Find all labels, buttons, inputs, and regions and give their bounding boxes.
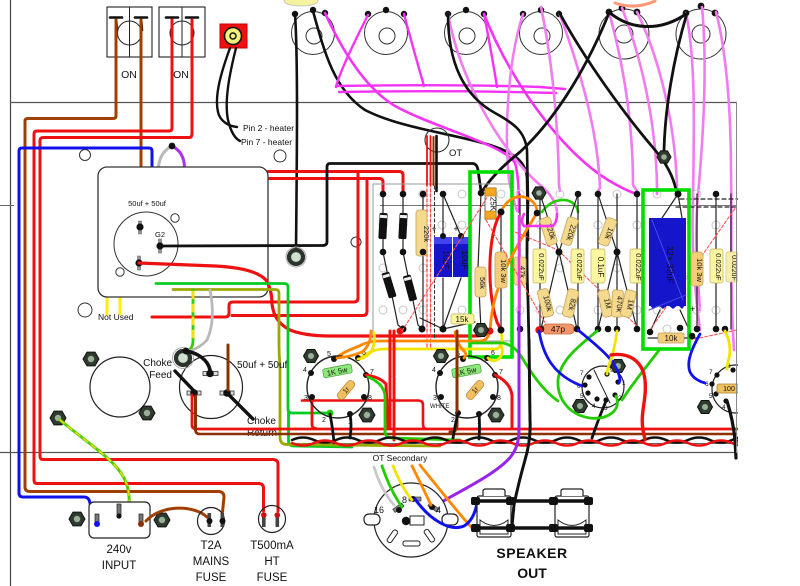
resistor 1K 5w (V7) xyxy=(322,364,352,379)
wire: magenta heater bus lower xyxy=(339,91,556,93)
wire: olive run from panel xyxy=(173,290,440,447)
wire: red dashed diagonal F xyxy=(690,330,737,340)
svg-text:FUSE: FUSE xyxy=(196,572,227,584)
svg-text:4: 4 xyxy=(722,404,726,411)
hole top left xyxy=(80,150,91,161)
wire: black grommet to C2 top pin xyxy=(186,351,210,370)
svg-text:Not Used: Not Used xyxy=(98,312,134,322)
wire: grey cap lead to panel xyxy=(159,146,173,167)
wire: green arc over board top xyxy=(542,200,578,212)
bolt hex nut V9 bottom xyxy=(573,400,588,413)
svg-text:WHITE: WHITE xyxy=(430,404,449,410)
node: red terminal 47p left xyxy=(535,326,542,333)
socket V9 pin numbers xyxy=(577,367,626,412)
bolt hex nut V7 bottom xyxy=(359,408,375,422)
capacitor 0.1uF xyxy=(591,249,605,283)
grommet right of panel xyxy=(286,247,306,267)
svg-text:5: 5 xyxy=(580,393,584,400)
connector pin live right xyxy=(138,514,144,527)
node: red terminal in green rect xyxy=(487,328,494,335)
wire: brown link input to mains fuse xyxy=(146,508,207,521)
wire: heater twisted pair from pilot lamp to Pin2 label xyxy=(217,48,237,127)
wire: magenta heater V6 strand c xyxy=(696,7,704,310)
wire: red horizontal mid route xyxy=(302,401,427,430)
wire: black V6 left pin to chassis lug xyxy=(664,13,687,150)
capacitor 0.022uF (5) edge xyxy=(726,252,738,282)
wire: OT primary red lead pair xyxy=(427,136,431,185)
tube socket V4 top xyxy=(520,12,563,55)
wire: magenta purple stub top xyxy=(518,216,521,310)
svg-text:ON: ON xyxy=(121,69,137,81)
wire: magenta heater from V1 sweep to board xyxy=(325,13,519,212)
wire: blue loop to V9 pin6 xyxy=(539,331,582,386)
svg-text:0.022uF: 0.022uF xyxy=(730,255,737,281)
wire: magenta heater V6 strand d xyxy=(716,12,734,350)
capacitor C2 pin left xyxy=(187,389,201,397)
bolt hex nut V8 bottom xyxy=(488,408,504,422)
wire: magenta heater V6 left xyxy=(622,8,657,194)
svg-text:6: 6 xyxy=(491,350,495,357)
resistor 15k xyxy=(451,314,474,324)
connector: 240v input socket body xyxy=(89,502,150,538)
wire: magenta heater V6 strand a xyxy=(637,12,678,192)
wire: black dashed vertical on rectifier board xyxy=(434,186,436,340)
hole mid left xyxy=(78,303,92,317)
wire: OT primary black lead xyxy=(435,136,438,191)
board: preamp PSU mounting panel xyxy=(98,167,268,297)
svg-text:0.022uF: 0.022uF xyxy=(575,253,584,281)
wire: purple cap lead to panel xyxy=(172,146,185,167)
OT plug pin 16 xyxy=(393,503,404,513)
bolt hex nut input right xyxy=(154,513,170,527)
capacitor 10uF A xyxy=(434,237,452,277)
wire: brown mains from SW1 right lever down into panel xyxy=(140,20,143,167)
wire: red twisted pair run xyxy=(292,441,740,446)
switch SW2 toggle levers xyxy=(166,18,198,31)
terminals rectifier board top xyxy=(380,190,505,216)
wire: orange drop to V7 pin5 xyxy=(337,331,371,358)
wire: red drop from C2 left pin xyxy=(192,395,737,429)
tube socket V9 noval base xyxy=(582,366,624,408)
resistor 220k diag left xyxy=(539,216,559,246)
svg-text:INPUT: INPUT xyxy=(102,560,137,572)
tube socket V7 octal base xyxy=(307,356,369,418)
switch SW1 toggle levers xyxy=(110,18,147,31)
svg-text:56k: 56k xyxy=(478,277,487,289)
svg-text:25K: 25K xyxy=(489,197,498,212)
hole: mains transformer opening xyxy=(90,357,150,417)
wire: yellow drop to V10 pin8 xyxy=(725,331,730,369)
wire: black choke return lead xyxy=(227,393,253,419)
svg-text:HT: HT xyxy=(264,556,279,568)
svg-text:MAINS: MAINS xyxy=(193,556,230,568)
wire: chassis right board edge xyxy=(736,102,738,453)
connector: OT secondary plug body xyxy=(374,483,448,557)
hole near board left xyxy=(351,237,361,247)
resistor 1M diag left xyxy=(597,289,614,318)
capacitor 0.022uF (3) xyxy=(630,249,643,283)
svg-text:1: 1 xyxy=(622,380,626,387)
wire: green B+ run from panel to lower area xyxy=(156,284,329,414)
tube socket V8 octal base xyxy=(436,356,498,418)
wire: black dashed jumpers top right xyxy=(676,199,745,207)
wire: blue mains neutral xyxy=(19,148,152,516)
capacitor 10uF B xyxy=(453,237,471,277)
bolt hex nut earth xyxy=(50,411,66,425)
wire: orange run down through board xyxy=(336,213,537,358)
socket V8 pins xyxy=(437,355,498,417)
wire: red dashed diagonal E xyxy=(650,207,736,330)
svg-text:ON: ON xyxy=(173,69,189,81)
capacitor C2 pin right xyxy=(220,389,234,397)
wire: brown mains from SW1 left lever xyxy=(25,20,224,512)
svg-text:5: 5 xyxy=(709,393,713,400)
resistor 220k diag right xyxy=(560,216,580,246)
svg-text:10k 3w: 10k 3w xyxy=(695,258,704,282)
wire: black V5 sweep down-left to 25K xyxy=(483,13,609,190)
wire: salmon stub top right xyxy=(615,1,655,6)
wire: orange OT secondary lead xyxy=(412,466,431,505)
resistor 100k (V10) xyxy=(717,384,739,393)
wire: yellow loop to V8 pin6 xyxy=(488,345,502,361)
wire: green from V7 pin7 down xyxy=(368,377,460,440)
wire: black choke feed lead xyxy=(175,371,196,393)
resistor 10k 3w (output board) xyxy=(691,252,704,286)
svg-text:50uf + 50uf: 50uf + 50uf xyxy=(237,360,288,371)
wire: blue from board to V9 pin1 xyxy=(578,330,620,383)
highlight green rectangle 2 xyxy=(643,190,689,349)
wire: red dashed diagonal A xyxy=(402,196,488,331)
terminals right board bottom xyxy=(538,325,729,340)
resistor 1K 5w (V8) xyxy=(451,364,481,379)
wire: chassis mid fold line xyxy=(0,205,14,207)
wire: grey run from panel to grommet xyxy=(189,290,212,351)
capacitor 0.022uF (2) xyxy=(571,249,584,283)
diode D1 xyxy=(378,213,387,239)
wire: purple drop from board xyxy=(440,310,519,503)
bolt hex nut V7 top xyxy=(304,350,319,363)
wire: black V4b sweep down-right to 32uF xyxy=(559,12,676,190)
bolt hex nut left B xyxy=(139,406,155,420)
svg-text:3: 3 xyxy=(433,395,437,402)
svg-text:8: 8 xyxy=(402,495,407,505)
highlight green rectangle 1 xyxy=(470,172,512,357)
svg-text:0.1uF: 0.1uF xyxy=(596,257,605,278)
wire: magenta heater V5 sweep left xyxy=(559,12,600,191)
svg-text:OT Secondary: OT Secondary xyxy=(373,453,428,463)
wire: black from C1 G2 terminal to board xyxy=(160,164,481,247)
resistor 100k diag xyxy=(537,288,555,318)
capacitor C1 can outline xyxy=(114,212,178,276)
capacitor C1 pin G2 xyxy=(156,239,163,253)
svg-text:7: 7 xyxy=(580,370,584,377)
wire: black speaker column through boards xyxy=(527,200,529,345)
svg-text:Feed: Feed xyxy=(149,370,172,381)
OT plug pin 8 xyxy=(409,496,421,502)
svg-text:8: 8 xyxy=(368,395,372,402)
wire: magenta heater V3b to terminal xyxy=(484,14,634,193)
wire: maroon bias bus lower xyxy=(196,430,737,434)
bolt hex nut V10 xyxy=(698,401,713,414)
wire: speaker jack top bus bar xyxy=(475,499,590,502)
OT plug slots xyxy=(386,529,435,546)
board: main tag board holes xyxy=(379,190,720,333)
wire: magenta V4 left pin strand xyxy=(507,14,523,211)
wire: green loop from board to V9 pin2 xyxy=(558,331,617,418)
switch SW2 body xyxy=(159,7,205,57)
wire: orange long lead to speaker jack xyxy=(420,465,480,531)
wire: grey OT secondary lead xyxy=(374,467,394,505)
wire: magenta heater chain link A xyxy=(336,15,368,87)
wire: magenta heater V3 sweep xyxy=(448,14,557,212)
resistor 1r (V8) xyxy=(465,379,486,401)
resistor 25K xyxy=(485,188,498,219)
capacitor 0.022uF (4) xyxy=(710,249,723,283)
socket V7 pin numbers xyxy=(303,350,374,426)
wire: black V3 pin lead joining speaker column xyxy=(448,14,528,200)
wire: black from V9 pin3 down xyxy=(592,401,606,438)
wire: magenta short V2 right pin arc xyxy=(404,14,424,86)
node: V7 pin2 green terminal xyxy=(327,410,334,417)
tube socket V10 noval base right edge xyxy=(712,365,760,413)
wire: magenta heater V6 strand b xyxy=(686,13,700,330)
connector pin earth top xyxy=(116,504,121,519)
diode D2 xyxy=(398,213,407,239)
wire: red HT pair upper to rectifier board A xyxy=(268,172,403,193)
svg-text:FUSE: FUSE xyxy=(257,572,288,584)
svg-text:5: 5 xyxy=(327,351,331,358)
svg-text:2: 2 xyxy=(322,417,326,424)
svg-text:15k: 15k xyxy=(456,315,470,324)
resistor 10k 3w xyxy=(495,252,508,288)
socket V9 centre line xyxy=(594,370,610,403)
wire: magenta short V3 right pin arc xyxy=(484,14,497,87)
wire: yellow not-used stub A xyxy=(106,297,109,314)
wire: chassis lower fold line B xyxy=(0,452,737,454)
wire: red bow inside green rect xyxy=(490,213,501,330)
svg-text:+: + xyxy=(431,224,436,234)
bolt hex nut V8 top xyxy=(434,350,449,363)
wire: heater twisted pair from pilot lamp to Pin7 label xyxy=(227,48,240,141)
wire: chassis lower fold line A xyxy=(283,443,737,445)
speaker jack A body xyxy=(477,489,511,537)
resistor 56k xyxy=(475,267,487,297)
wire: red drop from V7 pin3 xyxy=(312,397,316,429)
bolt hex nut near V5 xyxy=(657,151,671,163)
socket V9 pins xyxy=(582,371,620,402)
wire: red dashed vertical pair on rectifier board xyxy=(427,184,431,348)
resistor 82k diag xyxy=(562,288,580,318)
connector pin neutral left xyxy=(94,514,100,527)
capacitor 32+32uF electrolytic xyxy=(649,218,686,310)
wire: red mains from SW2 left lever xyxy=(34,20,264,511)
resistor 47k xyxy=(514,257,527,285)
wire: black from V7 pin2 to twisted run xyxy=(330,414,334,443)
wire: green sweep from 32uF rect down xyxy=(622,349,660,400)
svg-text:50uf + 50uf: 50uf + 50uf xyxy=(128,199,167,208)
hole in panel B xyxy=(116,268,124,276)
hole in panel A xyxy=(171,214,179,222)
wire: red mains from SW2 right lever xyxy=(40,20,278,511)
svg-text:4: 4 xyxy=(432,367,436,374)
decorative yellow remnant top xyxy=(284,0,318,6)
wire: magenta heater bus upper xyxy=(336,85,565,89)
wire: yellow OT secondary lead xyxy=(393,466,412,500)
svg-text:OUT: OUT xyxy=(517,565,547,581)
capacitor 47p xyxy=(543,324,574,334)
svg-text:4: 4 xyxy=(436,505,441,515)
svg-text:7: 7 xyxy=(499,369,503,376)
resistor 10k horizontal xyxy=(658,333,684,343)
svg-text:47p: 47p xyxy=(551,324,565,334)
wire: red dashed diagonal D xyxy=(562,254,637,326)
wire: black from V8 pin2 down xyxy=(453,413,458,438)
svg-text:T2A: T2A xyxy=(200,540,221,552)
svg-text:10k: 10k xyxy=(665,334,679,343)
svg-text:10k 3w: 10k 3w xyxy=(499,259,508,283)
resistor 1r (V7) xyxy=(336,379,357,401)
wire: green link from board1 to V9 loop xyxy=(472,343,558,401)
wire: black arc V5 to V6 xyxy=(609,12,686,27)
tube socket V1 top xyxy=(292,12,335,55)
diode D3 xyxy=(381,271,396,298)
wire: black from V10 pin4 down xyxy=(727,401,736,458)
svg-text:G2: G2 xyxy=(155,230,165,239)
svg-text:0.022uF: 0.022uF xyxy=(537,253,546,281)
resistor 1M diag right xyxy=(620,289,638,318)
svg-text:16: 16 xyxy=(374,505,384,515)
svg-text:0.022uF: 0.022uF xyxy=(714,253,723,281)
speaker jack terminals xyxy=(471,497,593,532)
wire: red from V8 pin7 xyxy=(495,375,512,428)
wire: black V1 pin lead sweeping right to speaker column xyxy=(313,11,528,240)
wire: maroon drop from C2 pin to bias bus xyxy=(194,396,197,430)
white page margin right xyxy=(738,0,800,586)
wire: red dashed diagonal C xyxy=(515,232,558,250)
wire: green-yellow striped run from panel to grommet xyxy=(187,290,193,351)
terminals rectifier board bottom xyxy=(400,326,524,334)
OT plug left ear xyxy=(364,514,380,525)
svg-text:3: 3 xyxy=(304,395,308,402)
wire: orange arc from 25K node xyxy=(501,197,537,212)
diode D4 xyxy=(403,274,417,301)
wire: magenta detour on right board xyxy=(522,214,557,226)
capacitor C1 pin 3 xyxy=(135,256,142,270)
svg-text:32+ 32uF: 32+ 32uF xyxy=(665,246,675,285)
wire: maroon vertical below V8 xyxy=(450,331,457,432)
tube socket V5 top (power) xyxy=(599,9,649,59)
wire: red HT pair upper to rectifier board B xyxy=(268,179,383,193)
wire: red verticals below V7 xyxy=(389,331,392,428)
wire: magenta heater V5 sweep right xyxy=(609,12,637,191)
wire: black V1 pin lead down to grommet xyxy=(295,14,297,250)
capacitor C2 pin top xyxy=(203,370,218,378)
socket V8 pin numbers xyxy=(432,350,503,426)
wire: OT primary maroon lead xyxy=(433,137,435,185)
hole near labels xyxy=(274,150,286,162)
svg-text:240v: 240v xyxy=(107,544,132,556)
wire: chassis right edge redraw xyxy=(736,102,738,453)
board: rectifier tag board outline xyxy=(373,184,512,341)
wire: blue S to V10 pin6 xyxy=(689,334,705,383)
capacitor 0.022uF (1) xyxy=(533,249,546,283)
svg-text:4: 4 xyxy=(303,367,307,374)
svg-text:Pin 2 - heater: Pin 2 - heater xyxy=(243,123,294,133)
wire: chassis top fold line xyxy=(10,102,737,104)
wire: green OT secondary lead xyxy=(382,466,402,507)
wire: chassis left vertical edge xyxy=(10,0,12,586)
wire: red dashed diagonal B xyxy=(486,220,548,328)
bolt hex nut V9 top xyxy=(611,360,626,373)
resistor 220k (rectifier board) xyxy=(416,210,431,256)
OT plug centre terminal xyxy=(402,516,424,525)
wire: red thick loop around V9 xyxy=(611,354,645,440)
wire: red from C1 pin3 sweeping right xyxy=(139,263,489,336)
terminals rectifier board mid xyxy=(380,233,464,255)
switch SW1 body xyxy=(107,7,152,57)
wire: lead lines right board xyxy=(540,194,731,338)
svg-text:8: 8 xyxy=(497,395,501,402)
tube socket V3 top xyxy=(445,12,488,55)
socket V7 pins xyxy=(308,355,369,417)
tube socket V2 top xyxy=(365,12,408,55)
node: grey purple junction xyxy=(169,143,176,150)
svg-text:220k: 220k xyxy=(422,226,431,243)
svg-text:Choke: Choke xyxy=(143,358,172,369)
svg-text:OT: OT xyxy=(449,148,462,159)
wire: black twisted pair run xyxy=(292,438,740,443)
wire: component lead lines rectifier board xyxy=(383,193,520,330)
bolt hex nut near board top A xyxy=(532,187,546,199)
wire: yellow drop to V7 pin6 xyxy=(358,333,374,359)
wire: magenta heater V4 sweep xyxy=(541,7,560,191)
wire: black speaker lead from above xyxy=(512,340,530,526)
node: red terminal on board bottom xyxy=(397,328,404,335)
svg-text:+: + xyxy=(453,224,458,234)
bolt hex nut left A xyxy=(83,352,99,366)
wire: yellow not-used stub B xyxy=(119,297,122,314)
wire: green-yellow earth lead xyxy=(60,420,129,503)
capacitor C2 can 50uf+50uf outline xyxy=(180,356,243,419)
socket V10 pins xyxy=(709,367,735,403)
svg-text:SPEAKER: SPEAKER xyxy=(496,545,567,561)
svg-text:T500mA: T500mA xyxy=(250,540,294,552)
socket V10 pin numbers xyxy=(705,363,731,411)
wire: black from V7 pin1 down xyxy=(350,414,351,438)
svg-text:100: 100 xyxy=(723,386,735,393)
wire: yellow to V9 pin9 xyxy=(607,331,617,374)
resistor 10k diag xyxy=(598,217,619,247)
svg-text:+: + xyxy=(690,304,695,314)
wire: red from V7 pin7 xyxy=(366,375,388,428)
jack J1 pilot lamp red bezel xyxy=(220,24,247,48)
speaker jack B body xyxy=(555,489,589,537)
OT plug right ear xyxy=(442,514,458,525)
wire: orange drop to V8 pin5 xyxy=(455,332,466,358)
wire: speaker jack bottom bus bar xyxy=(475,526,590,529)
wire: yellow run from board bottom to socket xyxy=(358,330,502,360)
wire: maroon feed to C2 right pin xyxy=(227,345,230,390)
svg-text:Pin 7 - heater: Pin 7 - heater xyxy=(241,137,292,147)
bolt hex nut board bottom xyxy=(474,324,489,337)
resistor 470k mid xyxy=(612,290,625,317)
wire: black from V8 pin1 down xyxy=(478,414,481,439)
svg-text:7: 7 xyxy=(709,369,713,376)
bolt hex nut input left xyxy=(69,512,85,526)
hole: OT transformer wiring hole xyxy=(425,128,449,152)
OT plug pin 4 xyxy=(428,502,439,512)
tube socket V6 top (power) xyxy=(676,9,726,59)
